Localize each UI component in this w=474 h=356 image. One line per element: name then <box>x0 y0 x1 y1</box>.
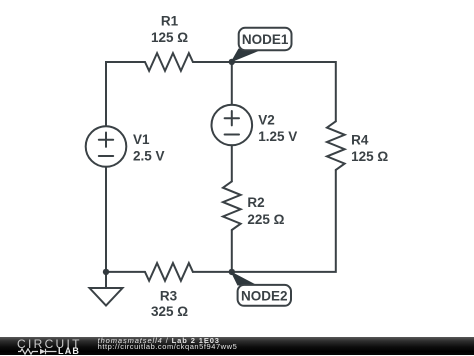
junction dot at ground node <box>103 269 109 275</box>
svg-text:1.25 V: 1.25 V <box>258 129 297 144</box>
svg-text:2.5 V: 2.5 V <box>133 149 165 164</box>
resistor R2 <box>223 181 241 230</box>
svg-text:R1: R1 <box>161 13 179 28</box>
wire top left: node corner to R1 left lead <box>106 62 145 126</box>
voltage source V2 <box>212 105 253 146</box>
svg-text:R2: R2 <box>247 195 264 210</box>
svg-text:R4: R4 <box>351 132 369 147</box>
svg-text:NODE1: NODE1 <box>242 32 289 47</box>
junction dot at NODE2 <box>229 269 235 275</box>
svg-text:125 Ω: 125 Ω <box>351 149 388 164</box>
wire R2 bottom lead to NODE2 junction <box>231 230 233 272</box>
wire R3 right lead to NODE2 junction <box>193 271 232 273</box>
wire R4 bottom lead to bottom-right corner to NODE2 junction <box>232 170 336 272</box>
svg-text:V1: V1 <box>133 132 150 147</box>
wire NODE1 junction to top-right corner into R4 branch <box>232 62 336 121</box>
wire ground junction to R3 left lead <box>106 271 145 273</box>
resistor R4 <box>327 121 345 170</box>
wire V2 bottom lead to R2 top lead <box>231 145 233 181</box>
svg-text:225 Ω: 225 Ω <box>247 212 284 227</box>
resistor R1 <box>145 53 193 71</box>
svg-text:R3: R3 <box>160 288 178 303</box>
wire R1 right lead to NODE1 junction <box>193 61 232 63</box>
junction dot at NODE1 <box>229 59 235 65</box>
resistor R3 <box>145 263 193 281</box>
voltage source V1 <box>86 126 127 167</box>
node NODE1 flag <box>231 28 292 63</box>
svg-text:NODE2: NODE2 <box>241 288 288 303</box>
wire V2 top lead from NODE1 junction <box>231 62 233 105</box>
ground <box>90 272 123 306</box>
svg-text:V2: V2 <box>258 113 275 128</box>
wire V1 bottom lead to ground junction <box>105 167 107 272</box>
node NODE2 flag <box>231 271 292 306</box>
svg-text:325 Ω: 325 Ω <box>151 304 188 319</box>
svg-text:125 Ω: 125 Ω <box>151 30 188 45</box>
